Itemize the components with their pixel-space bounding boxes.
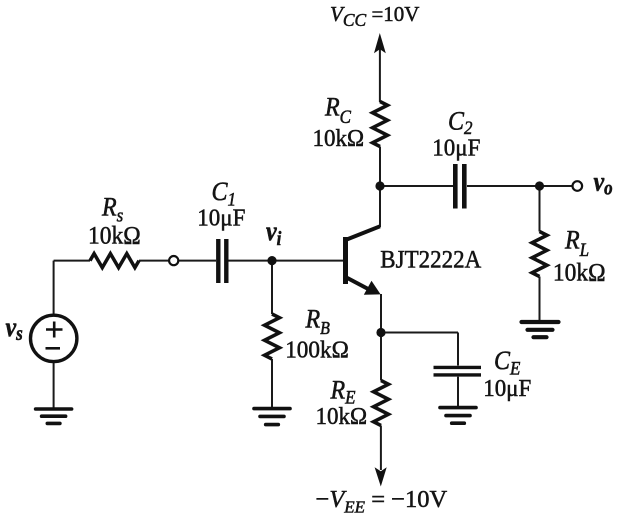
svg-text:−VEE = −10V: −VEE = −10V (316, 486, 448, 517)
svg-text:10μF: 10μF (483, 375, 531, 402)
svg-text:10μF: 10μF (432, 135, 480, 162)
svg-text:10μF: 10μF (197, 205, 245, 232)
svg-text:BJT2222A: BJT2222A (380, 246, 481, 274)
svg-text:10kΩ: 10kΩ (315, 403, 367, 430)
svg-text:100kΩ: 100kΩ (285, 337, 349, 364)
svg-text:10kΩ: 10kΩ (553, 259, 606, 287)
svg-text:10kΩ: 10kΩ (88, 222, 141, 250)
svg-text:10kΩ: 10kΩ (312, 125, 364, 152)
